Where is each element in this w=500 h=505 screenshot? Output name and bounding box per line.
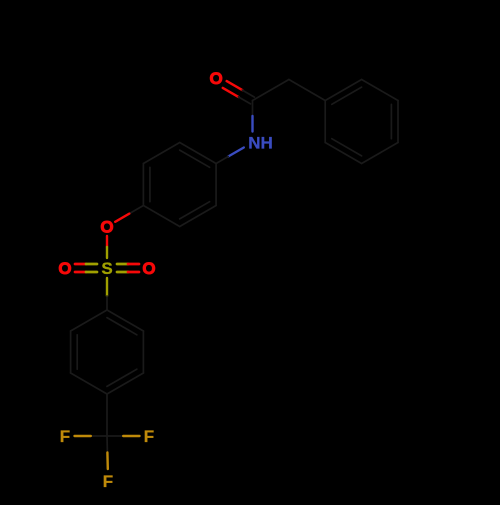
bond O-S [106,236,108,247]
svg-text:F: F [60,427,70,446]
sulfonyl double bond S=O left [75,271,86,274]
svg-text:S: S [101,259,112,278]
svg-text:F: F [103,472,113,491]
bond S-ring [106,278,108,296]
sulfonyl double bond S=O right [117,271,128,274]
bond C-F left [91,435,107,437]
bond C-F bottom [106,436,108,453]
bond CH2-phenyl [289,80,325,101]
amide bond C-N [252,101,254,117]
benzene ring middle (aminophenyl) [142,164,144,206]
svg-text:F: F [144,427,154,446]
svg-text:O: O [100,218,113,237]
bond N-ring [228,148,244,157]
benzene ring right (phenyl) [325,80,361,101]
bond C-F right [107,435,123,437]
svg-text:NH: NH [248,134,273,153]
bond ring-CF3 carbon [106,394,108,436]
svg-text:O: O [209,69,222,88]
svg-text:O: O [142,259,155,278]
carbonyl double bond C=O [223,88,239,97]
svg-text:O: O [58,259,71,278]
bond C(=O)-CH2 [253,80,289,101]
benzene ring bottom (CF3-phenyl) [107,310,143,331]
bond ring-O ester [129,206,143,214]
